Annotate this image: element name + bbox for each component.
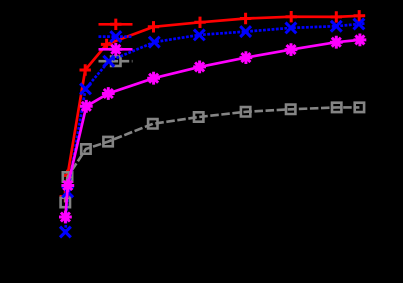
magenta legend sample line — [99, 48, 133, 51]
gray curve line (dashed) — [65, 107, 359, 202]
blue curve line (dotted) — [65, 23, 365, 232]
red legend marker (+) — [110, 19, 121, 30]
red curve markers (+) — [60, 10, 365, 202]
red legend sample line — [99, 23, 133, 26]
magenta curve line — [65, 40, 360, 217]
magenta legend marker (*) — [109, 43, 122, 56]
blue curve markers (x) — [60, 19, 364, 238]
gray legend sample line (dashed) — [99, 60, 133, 63]
red curve line — [65, 16, 365, 197]
blue legend marker (x) — [110, 31, 121, 42]
magenta curve markers (*) — [59, 34, 366, 224]
gray legend marker (square) — [111, 57, 120, 66]
blue legend sample line (dotted) — [99, 35, 133, 38]
gray curve markers (square) — [61, 103, 365, 208]
